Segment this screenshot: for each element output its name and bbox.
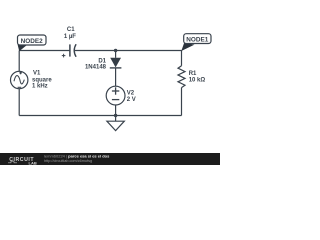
svg-text:1N4148: 1N4148 [85, 64, 107, 70]
svg-text:LAB: LAB [29, 160, 37, 165]
svg-text:2 V: 2 V [127, 97, 136, 103]
svg-text:V1: V1 [33, 70, 41, 76]
svg-text:1 kHz: 1 kHz [32, 84, 48, 90]
svg-text:http://circuitlab.com/c6mufsg: http://circuitlab.com/c6mufsg [44, 159, 92, 163]
svg-text:R1: R1 [189, 71, 197, 77]
svg-text:C1: C1 [67, 27, 75, 33]
svg-text:NODE2: NODE2 [21, 38, 43, 45]
svg-text:V2: V2 [127, 91, 135, 97]
svg-text:10 kΩ: 10 kΩ [189, 77, 206, 83]
svg-text:1 µF: 1 µF [64, 34, 76, 40]
svg-text:NODE1: NODE1 [186, 36, 208, 43]
svg-text:square: square [32, 77, 52, 83]
